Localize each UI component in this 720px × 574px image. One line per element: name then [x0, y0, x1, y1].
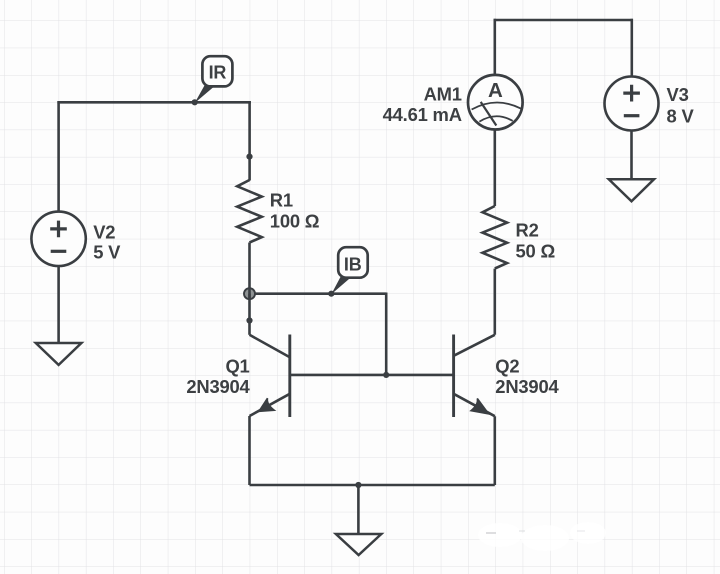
ground (V2) [36, 343, 82, 365]
wire top-left horizontal (V2 to R1 top) [57, 101, 251, 104]
junction dot above R1 [246, 154, 252, 160]
wire Q1 emitter vertical [248, 416, 251, 485]
wire ground stem bottom [357, 485, 360, 534]
watermark smudge [478, 522, 606, 551]
gray probe node [244, 288, 255, 299]
junction dot bottom rail [355, 482, 361, 488]
junction dot base rail [383, 372, 389, 378]
label R1 value [270, 190, 320, 232]
net flag IR [195, 56, 233, 103]
wire through gray node vertical [248, 288, 251, 301]
svg-text:50 Ω: 50 Ω [516, 241, 556, 262]
node IR junction dot [192, 99, 198, 105]
svg-text:44.61 mA: 44.61 mA [383, 104, 462, 125]
wire emitter bottom rail [250, 484, 495, 487]
svg-text:Q1: Q1 [225, 356, 249, 377]
label Q2 [495, 356, 559, 398]
svg-text:V3: V3 [667, 84, 689, 105]
wire IB horizontal [255, 292, 387, 295]
node IB junction dot [328, 291, 334, 297]
label V2 value [93, 221, 121, 262]
svg-text:V2: V2 [93, 221, 115, 242]
wire ammeter to R2 [493, 130, 496, 207]
svg-text:IB: IB [344, 254, 362, 274]
wire base rail Q1-Q2 [290, 374, 454, 377]
ground (emitters) [336, 534, 381, 555]
svg-text:8 V: 8 V [667, 106, 695, 127]
resistor R2 [483, 206, 508, 269]
svg-text:2N3904: 2N3904 [186, 376, 250, 397]
voltage source V3 [605, 77, 659, 131]
wire Q1 collector stub [248, 294, 251, 335]
wire top-right horizontal [494, 19, 633, 22]
voltage source V2 [31, 212, 85, 266]
label V3 value [667, 84, 695, 127]
label Q1 [186, 356, 250, 398]
svg-text:R2: R2 [516, 220, 539, 241]
wire V2 bottom to ground [57, 266, 60, 343]
wire Q2 emitter vertical [493, 416, 496, 485]
transistor Q2 [454, 335, 495, 418]
net flag IB [331, 247, 367, 294]
wire ammeter top vertical [493, 19, 496, 75]
ground (V3) [609, 179, 654, 201]
svg-text:Q2: Q2 [495, 356, 519, 377]
wire R1 bottom to gray node [248, 243, 251, 294]
label AM1 value [383, 83, 462, 125]
svg-text:2N3904: 2N3904 [495, 376, 559, 397]
svg-text:100 Ω: 100 Ω [270, 211, 320, 232]
svg-text:IR: IR [209, 63, 227, 83]
ammeter AM1 [468, 75, 523, 130]
svg-text:AM1: AM1 [424, 83, 462, 104]
svg-text:5 V: 5 V [93, 242, 121, 263]
svg-text:R1: R1 [270, 190, 293, 211]
transistor Q1 [250, 335, 290, 418]
wire V3 top vertical [630, 19, 633, 77]
junction dot Q1 collector [246, 317, 252, 323]
wire Q2 collector vertical [493, 269, 496, 335]
resistor R1 [237, 180, 262, 243]
wire R1 top vertical [248, 101, 251, 180]
label R2 value [516, 220, 556, 262]
wire IB vertical to base rail [385, 293, 388, 375]
svg-text:A: A [488, 79, 503, 102]
wire V3 bottom to ground [630, 131, 633, 180]
wire V2 top vertical [57, 101, 60, 212]
